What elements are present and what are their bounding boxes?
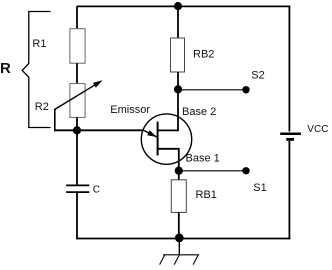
wire right rail upper [288, 6, 290, 131]
junction dot top rail [174, 2, 182, 10]
svg-text:S2: S2 [251, 70, 264, 82]
terminal dot S1 [242, 167, 249, 174]
wire RB2 branch top [177, 6, 179, 38]
resistor RB1 [171, 180, 186, 213]
svg-text:Base 2: Base 2 [182, 106, 216, 118]
wire to S1 [179, 170, 246, 172]
wire below R2 [76, 117, 78, 135]
base 2 lead [158, 90, 178, 131]
svg-text:R1: R1 [32, 38, 46, 50]
base 1 lead [158, 149, 179, 171]
svg-text:VCC: VCC [307, 124, 328, 135]
wire between R1 and R2 [76, 63, 78, 84]
ground symbol [160, 255, 200, 265]
resistor R1 [70, 29, 85, 64]
wire down to capacitor [76, 130, 78, 185]
junction dot bottom rail [175, 234, 184, 243]
svg-text:R: R [0, 60, 11, 77]
emitter diagonal with arrow [144, 130, 157, 137]
wire left rail top segment [76, 6, 78, 29]
junction dot base1 node [175, 167, 183, 175]
terminal dot S2 [242, 86, 249, 93]
battery VCC [280, 134, 301, 140]
svg-text:RB2: RB2 [193, 48, 214, 60]
wire RB2 to junction [177, 72, 179, 90]
ground stub wire [178, 238, 180, 255]
resistor R2 (variable) [70, 84, 85, 118]
wire RB1 to bottom rail [178, 212, 180, 238]
wire emitter horizontal [54, 129, 144, 131]
junction dot emitter node [73, 126, 81, 134]
svg-text:C: C [93, 185, 100, 196]
wire RB1 branch top [178, 171, 180, 181]
bracket for R group [22, 12, 50, 128]
wire below capacitor [76, 192, 78, 239]
svg-text:RB1: RB1 [196, 189, 217, 201]
svg-text:S1: S1 [253, 182, 266, 194]
wire top rail [77, 5, 291, 7]
R2 wiper drop wire [54, 109, 56, 132]
capacitor C [66, 185, 89, 192]
svg-text:Base 1: Base 1 [186, 153, 220, 165]
R2 wiper arrow [55, 80, 103, 109]
wire bottom rail [77, 238, 291, 240]
wire right rail lower [288, 141, 290, 240]
transistor base bar [157, 122, 159, 156]
junction dot base2 node [174, 85, 182, 93]
svg-text:R2: R2 [35, 101, 49, 113]
wire to S2 [178, 89, 246, 91]
transistor U1 (UJT) circle [141, 114, 191, 164]
resistor RB2 [171, 38, 185, 72]
svg-text:Emissor: Emissor [110, 104, 150, 116]
